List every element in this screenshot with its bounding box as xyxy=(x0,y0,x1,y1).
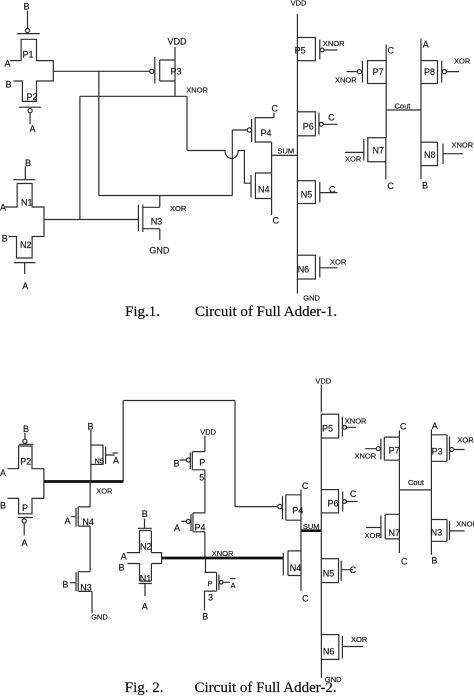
svg-text:N2: N2 xyxy=(140,542,152,552)
svg-text:C: C xyxy=(302,594,309,604)
svg-text:C: C xyxy=(388,46,395,56)
svg-text:C: C xyxy=(302,481,309,491)
svg-text:B: B xyxy=(0,501,6,511)
svg-text:XNOR: XNOR xyxy=(212,549,234,558)
svg-text:N4: N4 xyxy=(290,563,302,573)
svg-text:P7: P7 xyxy=(373,67,384,77)
svg-text:P2: P2 xyxy=(20,457,31,467)
svg-text:XNOR: XNOR xyxy=(345,417,367,426)
svg-text:C: C xyxy=(400,422,407,432)
svg-text:Cout: Cout xyxy=(408,478,425,487)
svg-text:A: A xyxy=(142,602,148,612)
svg-text:P1: P1 xyxy=(23,50,34,60)
svg-text:N7: N7 xyxy=(389,528,401,538)
svg-text:VDD: VDD xyxy=(291,0,307,8)
svg-text:3: 3 xyxy=(208,593,213,603)
svg-text:Fig. 2.: Fig. 2. xyxy=(125,680,164,696)
svg-text:N4: N4 xyxy=(82,517,94,527)
svg-text:C: C xyxy=(272,104,279,114)
svg-text:GND: GND xyxy=(149,246,170,256)
svg-text:P6: P6 xyxy=(328,499,339,509)
svg-text:P4: P4 xyxy=(292,506,303,516)
svg-text:XOR: XOR xyxy=(345,155,362,164)
svg-text:B: B xyxy=(2,234,8,244)
svg-text:B: B xyxy=(25,158,31,168)
svg-text:N6: N6 xyxy=(298,265,310,275)
svg-text:P5: P5 xyxy=(322,424,333,434)
svg-text:B: B xyxy=(142,509,148,519)
svg-text:C: C xyxy=(350,565,357,575)
svg-text:A: A xyxy=(5,59,11,69)
svg-text:N5: N5 xyxy=(323,569,335,579)
svg-text:P6: P6 xyxy=(303,122,314,132)
svg-text:P: P xyxy=(199,458,205,468)
svg-text:C: C xyxy=(329,185,336,195)
svg-text:N3: N3 xyxy=(80,583,92,593)
svg-text:C: C xyxy=(350,489,357,499)
svg-text:N5: N5 xyxy=(301,190,313,200)
svg-text:P5: P5 xyxy=(295,46,306,56)
svg-text:A: A xyxy=(174,523,180,533)
svg-text:B: B xyxy=(6,80,12,90)
svg-text:N2: N2 xyxy=(20,240,32,250)
svg-text:B: B xyxy=(422,181,428,191)
svg-text:N3: N3 xyxy=(431,528,443,538)
svg-text:XNOR: XNOR xyxy=(335,76,357,85)
svg-text:C: C xyxy=(328,113,335,123)
svg-text:B: B xyxy=(119,563,125,573)
svg-text:A: A xyxy=(113,456,119,466)
svg-text:C: C xyxy=(273,216,280,226)
svg-text:XNOR: XNOR xyxy=(355,452,377,461)
svg-text:A: A xyxy=(22,281,28,291)
svg-text:GND: GND xyxy=(91,613,108,622)
svg-text:P4: P4 xyxy=(195,523,206,533)
svg-text:XNOR: XNOR xyxy=(323,39,345,48)
svg-text:P3: P3 xyxy=(171,67,182,77)
svg-text:B: B xyxy=(202,612,208,622)
svg-text:N3: N3 xyxy=(151,217,163,227)
svg-text:P: P xyxy=(22,503,28,513)
svg-text:N8: N8 xyxy=(424,150,436,160)
svg-text:XOR: XOR xyxy=(454,57,471,66)
svg-text:XNOR: XNOR xyxy=(452,141,474,150)
svg-text:P2: P2 xyxy=(27,92,38,102)
svg-text:XNOR: XNOR xyxy=(186,86,208,95)
svg-text:P4: P4 xyxy=(261,128,272,138)
svg-text:B: B xyxy=(174,459,180,469)
svg-text:B: B xyxy=(23,424,29,434)
svg-text:SUM: SUM xyxy=(278,147,295,156)
svg-text:N6: N6 xyxy=(323,647,335,657)
svg-text:Fig.1.: Fig.1. xyxy=(125,304,160,320)
svg-text:XOR: XOR xyxy=(96,487,113,496)
svg-text:C: C xyxy=(387,181,394,191)
svg-text:A: A xyxy=(0,468,6,478)
svg-text:XOR: XOR xyxy=(330,258,347,267)
svg-text:XOR: XOR xyxy=(457,436,474,445)
svg-text:N1: N1 xyxy=(21,198,33,208)
svg-text:N5: N5 xyxy=(95,457,105,466)
svg-text:A: A xyxy=(65,516,71,526)
svg-text:A: A xyxy=(432,421,438,431)
svg-text:P: P xyxy=(208,579,213,588)
svg-text:B: B xyxy=(62,580,68,590)
svg-text:A: A xyxy=(231,581,236,590)
svg-text:A: A xyxy=(121,552,127,562)
svg-text:VDD: VDD xyxy=(168,37,188,47)
svg-text:N1: N1 xyxy=(140,574,152,584)
svg-text:A: A xyxy=(22,538,28,548)
svg-text:C: C xyxy=(401,557,408,567)
svg-text:Circuit of Full Adder-1.: Circuit of Full Adder-1. xyxy=(195,304,337,320)
svg-text:XOR: XOR xyxy=(365,531,382,540)
svg-text:XOR: XOR xyxy=(170,204,187,213)
svg-text:5: 5 xyxy=(199,473,204,483)
svg-text:VDD: VDD xyxy=(315,377,331,386)
svg-text:B: B xyxy=(24,2,30,12)
svg-text:Cout: Cout xyxy=(395,102,412,111)
svg-text:B: B xyxy=(431,556,437,566)
svg-text:P8: P8 xyxy=(424,67,435,77)
svg-text:N4: N4 xyxy=(258,185,270,195)
svg-text:N7: N7 xyxy=(373,146,385,156)
svg-text:XOR: XOR xyxy=(351,635,368,644)
svg-text:P7: P7 xyxy=(389,446,400,456)
svg-text:GND: GND xyxy=(303,294,320,303)
svg-text:A: A xyxy=(423,40,429,50)
svg-text:A: A xyxy=(30,124,36,134)
svg-text:A: A xyxy=(0,203,6,213)
svg-text:P3: P3 xyxy=(432,447,443,457)
svg-text:Circuit of Full Adder-2.: Circuit of Full Adder-2. xyxy=(195,680,337,696)
svg-text:VDD: VDD xyxy=(200,428,216,437)
svg-text:XNOR: XNOR xyxy=(456,520,474,529)
svg-text:SUM: SUM xyxy=(303,522,320,531)
